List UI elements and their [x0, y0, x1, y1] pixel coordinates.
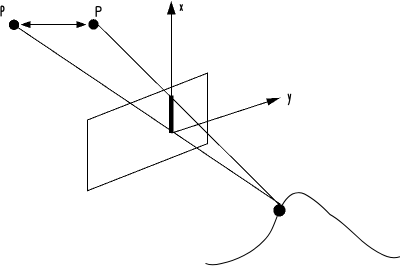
wire double-arrow shaft between P-left and P-right — [27, 24, 79, 26]
label P (right) — [96, 7, 101, 17]
image plane parallelogram — [88, 73, 208, 191]
label x — [180, 4, 182, 11]
x axis line — [170, 3, 172, 133]
arrowhead y axis — [266, 98, 280, 106]
arrowhead left (points to P-left) — [21, 21, 31, 28]
node P-left dot — [9, 20, 19, 30]
arrowhead x axis — [167, 1, 176, 15]
arrowhead right (points to P-right) — [77, 21, 87, 28]
node P-right dot — [88, 19, 98, 29]
label y — [288, 94, 291, 105]
terrain wave curve — [206, 193, 400, 265]
label P (left, at image edge) — [1, 6, 4, 16]
wire ray from P-left to surface point — [14, 25, 280, 204]
node surface point dot — [273, 204, 285, 216]
y axis line — [171, 98, 278, 133]
sensor bar (thick segment on x axis) — [169, 95, 173, 133]
wire ray from P-right to surface point — [94, 21, 280, 206]
